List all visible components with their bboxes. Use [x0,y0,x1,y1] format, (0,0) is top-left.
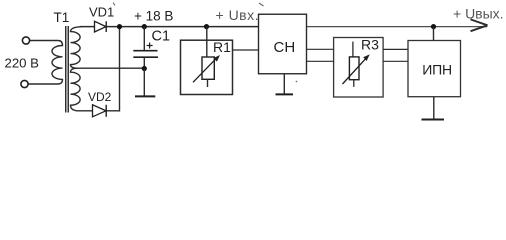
capacitor C1 [143,27,145,50]
output arrowhead [471,19,488,31]
top rail wire (left of СН) [80,26,259,28]
block R1 box [181,40,233,94]
R3 variable arrow [343,57,368,84]
stray mark near СН top [259,3,264,6]
block R3 box [334,38,384,98]
R1 variable arrow [193,57,217,82]
terminal bottom circle [21,80,28,87]
junction node R1/rail [204,24,209,29]
wires R3 to ИПН [383,48,408,50]
transformer core [65,26,67,113]
junction node C1 bottom [142,66,147,71]
stray dot in СН area [296,81,298,83]
svg-text:ИПН: ИПН [422,62,452,78]
svg-text:+ Uвх.: + Uвх. [216,7,260,23]
ground bar under СН [276,93,294,95]
svg-text:C1: C1 [152,29,171,45]
diode VD1 [95,21,107,32]
ground lead under ИПН [433,97,435,119]
capacitor C1 plus sign [147,43,153,49]
svg-text:VD1: VD1 [89,5,114,20]
svg-text:T1: T1 [54,10,70,25]
junction node VD2/rail [117,24,122,29]
top rail wire (right of СН to output arrow) [307,26,488,28]
VD2 wire [79,27,120,111]
svg-text:220 В: 220 В [5,55,40,70]
ground bar under C1 [135,95,155,97]
svg-text:СН: СН [274,39,296,56]
junction node ИПН/rail [431,24,436,29]
svg-text:VD2: VD2 [88,90,112,104]
diode VD2 [93,105,107,117]
stray mark near VD1 [113,3,115,6]
transformer secondary lower winding [71,68,81,111]
ground bar under ИПН [422,119,445,121]
ground lead under СН [283,74,285,94]
wires СН to R3 [307,48,334,50]
svg-text:+ 18 В: + 18 В [134,9,173,24]
resistor R3 body [349,57,359,80]
svg-text:R1: R1 [213,39,231,55]
ИПН top lead [433,27,435,41]
ground lead under C1 [143,69,145,96]
center tap wire [76,67,144,69]
terminal top circle [22,37,29,44]
transformer primary winding [28,41,62,85]
transformer secondary upper winding [71,27,83,68]
block ИПН box [408,41,461,97]
R3 bottom stub [353,80,355,87]
R3 top stub [352,42,354,57]
R1 top lead [206,27,208,57]
wire R1 to СН [233,49,259,51]
svg-text:R3: R3 [361,37,379,53]
resistor R1 body [202,57,214,79]
junction node C1/rail [142,24,147,29]
svg-text:+ Uвых.: + Uвых. [453,5,504,21]
block СН box [259,14,307,74]
R1 bottom stub [207,79,209,87]
